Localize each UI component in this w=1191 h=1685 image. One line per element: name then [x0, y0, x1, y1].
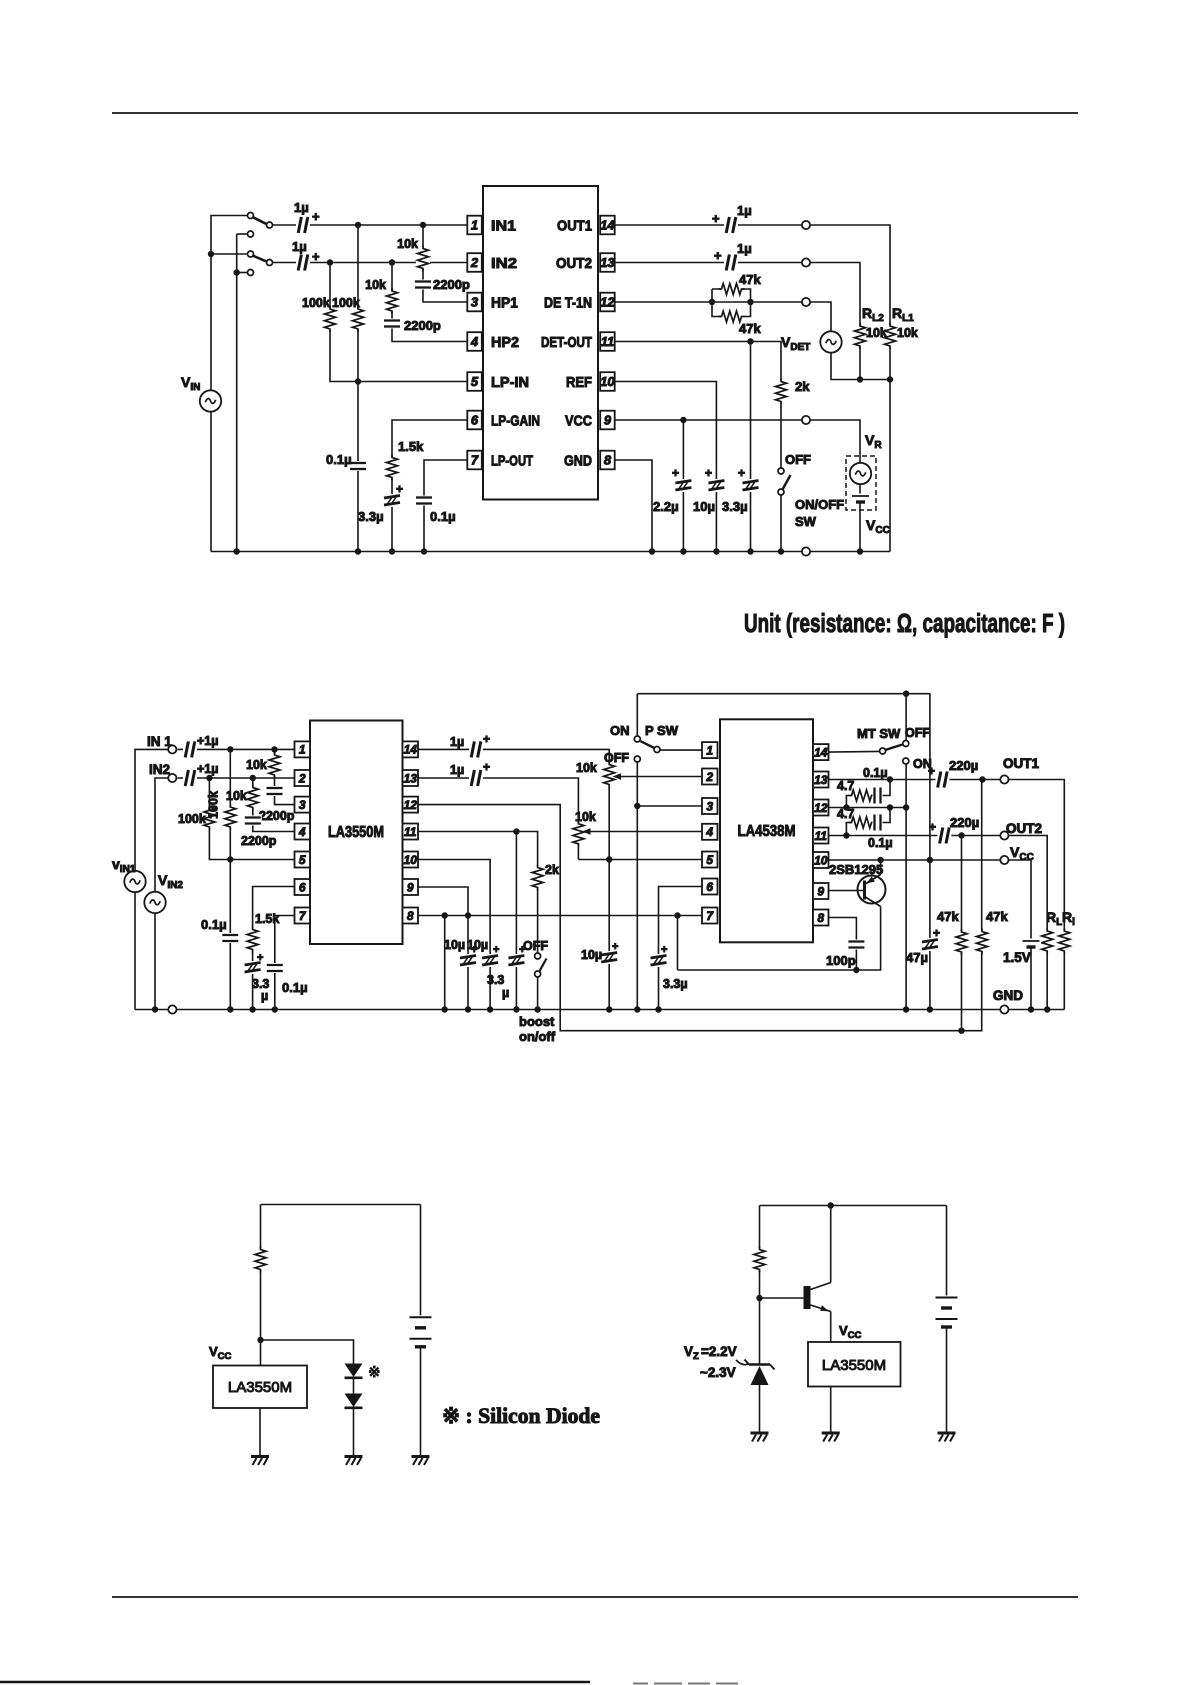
svg-text:9: 9 — [407, 880, 414, 894]
svg-text:+: + — [396, 482, 403, 496]
signal source VIN2 — [144, 892, 165, 913]
wire psw to pin1 — [660, 749, 702, 751]
svg-text:8: 8 — [407, 909, 414, 923]
svg-text:2k: 2k — [795, 379, 810, 394]
capacitor 220u out2 — [937, 827, 951, 845]
svg-text:4.7: 4.7 — [837, 807, 854, 821]
wire collector to pin7wire — [677, 916, 679, 971]
svg-text:3.3µ: 3.3µ — [722, 499, 748, 514]
capacitor 0.1u rc2 — [873, 814, 883, 832]
junction bus offcol — [634, 1006, 640, 1012]
resistor 4.7 a — [849, 789, 875, 803]
junction bus sw — [778, 548, 784, 554]
junction bus 10u — [713, 548, 719, 554]
pin 10 LA4538M — [813, 852, 829, 868]
wire VR internal — [859, 458, 861, 552]
svg-text:1: 1 — [299, 743, 306, 757]
resistor 10k b — [246, 785, 260, 811]
svg-text:VR: VR — [865, 432, 882, 451]
svg-text:LA4538M: LA4538M — [738, 823, 796, 840]
junction bus throw column — [234, 548, 240, 554]
svg-text:2.2µ: 2.2µ — [653, 499, 679, 514]
wire pin8 to pin7 — [418, 915, 702, 917]
pin 8 LA3550M — [403, 908, 419, 924]
transistor Q2 emitter arrow — [820, 1305, 828, 1311]
switch S2 contact — [267, 260, 273, 266]
wire c4 emitter down — [830, 1312, 832, 1343]
pin 11 LA4538M — [813, 828, 829, 844]
svg-text:GND: GND — [993, 988, 1023, 1003]
wire ground bus — [211, 551, 890, 553]
capacitor 1u p14 — [469, 740, 483, 758]
switch S2 unused throw — [248, 270, 254, 276]
wire pin8 down — [444, 916, 446, 1010]
svg-text:100k: 100k — [178, 812, 206, 826]
signal source VDET — [820, 331, 841, 352]
resistor Rl load — [1057, 928, 1071, 954]
junction rc2-pin11 — [843, 832, 849, 838]
svg-text:Unit (resistance: Ω, capacitan: Unit (resistance: Ω, capacitance: F ) — [744, 610, 1065, 638]
wire IN1 to pin1 — [178, 748, 295, 750]
resistor 10k hp2 — [385, 288, 399, 314]
junction bus 3.3u — [747, 548, 753, 554]
pin 4 LA4538M — [702, 824, 718, 840]
wire c4 left column — [759, 1206, 761, 1365]
diode D2 — [345, 1394, 363, 1408]
wire c3 top — [261, 1204, 421, 1206]
pin 3 U1 — [467, 293, 482, 312]
svg-text:VCC: VCC — [839, 1323, 862, 1341]
IC LA4538M body — [720, 719, 813, 942]
svg-text:2200p: 2200p — [433, 277, 470, 292]
junction RL2 bottom — [857, 376, 863, 382]
junction bus 1.5k app — [249, 1006, 255, 1012]
svg-text:100k: 100k — [207, 791, 221, 819]
ground c3 battery — [412, 1457, 430, 1466]
wire c4 collector up — [830, 1206, 832, 1283]
svg-text:5: 5 — [706, 853, 713, 867]
svg-text:0.1µ: 0.1µ — [326, 452, 352, 467]
junction pin5 node — [227, 856, 233, 862]
resistor RL load — [1040, 928, 1054, 954]
junction bus 2.2u — [680, 548, 686, 554]
svg-text:µ: µ — [261, 989, 268, 1003]
resistor RL1 10k — [883, 323, 897, 349]
svg-text:14: 14 — [404, 743, 418, 757]
pin 4 LA3550M — [295, 824, 311, 840]
capacitor 2200p hp1 — [414, 280, 432, 290]
arrow pot2 tap — [582, 828, 591, 834]
terminal IN2 — [168, 774, 176, 782]
svg-text:+: + — [714, 248, 722, 263]
resistor c3 — [254, 1247, 268, 1273]
svg-text:2k: 2k — [545, 863, 559, 877]
transistor Q2 collector — [811, 1283, 831, 1290]
junction LP-IN crossing — [355, 378, 361, 384]
svg-text:2: 2 — [298, 771, 306, 785]
junction 47k left — [709, 299, 715, 305]
junction vcc-2.2u — [680, 417, 686, 423]
switch S1 lever — [253, 217, 267, 224]
switch S2 lever — [253, 256, 267, 262]
svg-text:IN2: IN2 — [149, 762, 170, 777]
pin 12 LA3550M — [403, 797, 419, 813]
junction in2-100k — [206, 775, 212, 781]
svg-text:OFF: OFF — [604, 751, 629, 765]
terminal gnd left — [168, 1005, 176, 1013]
wire 47k loop — [712, 289, 751, 317]
junction mtcol-pin12 — [903, 804, 909, 810]
svg-text:LA3550M: LA3550M — [822, 1357, 886, 1374]
pin 1 LA3550M — [295, 741, 311, 757]
pin 13 LA3550M — [403, 770, 419, 786]
svg-text:14: 14 — [600, 218, 615, 233]
resistor 100k left — [323, 306, 337, 332]
svg-text:+: + — [712, 211, 720, 226]
svg-text:0.1µ: 0.1µ — [430, 509, 456, 524]
pin 11 U1 — [600, 332, 615, 351]
wire IN2 to pin2 — [178, 777, 295, 779]
wire pin14 out — [418, 749, 609, 1009]
pin 9 LA4538M — [813, 883, 829, 899]
svg-text:8: 8 — [604, 453, 612, 468]
svg-text:+: + — [933, 926, 940, 940]
switch ON/OFF top contact — [778, 468, 784, 474]
svg-text:boost: boost — [519, 1014, 555, 1029]
capacitor 0.1u b — [266, 963, 284, 973]
junction rc1-pin12 — [843, 804, 849, 810]
wire c4 top — [760, 1205, 947, 1207]
switch PSW on contact — [634, 736, 640, 742]
pin 7 U1 — [467, 451, 482, 470]
svg-text:1µ: 1µ — [294, 200, 309, 215]
wire pot1 tap — [616, 776, 702, 778]
svg-text:ON/OFF: ON/OFF — [795, 497, 844, 512]
terminal OUT1 app — [1000, 775, 1008, 783]
wire GND branch — [615, 460, 652, 552]
wire in2 rail — [155, 778, 172, 892]
pin 11 LA3550M — [403, 824, 419, 840]
junction pin11-3.3u — [513, 828, 519, 834]
capacitor 1u p13 — [469, 769, 483, 787]
svg-text:+: + — [483, 760, 490, 774]
junction bus 10ub — [487, 1006, 493, 1012]
svg-text:OFF: OFF — [785, 452, 811, 467]
wire LP-GAIN branch — [392, 420, 467, 552]
pin 10 LA3550M — [403, 852, 419, 868]
junction 47k right — [747, 299, 753, 305]
svg-text:VCC: VCC — [866, 517, 890, 536]
svg-text:OFF: OFF — [905, 726, 930, 740]
svg-text:0.1µ: 0.1µ — [282, 980, 308, 995]
svg-text:MT SW: MT SW — [857, 726, 901, 741]
pin 9 LA3550M — [403, 879, 419, 895]
svg-text:1: 1 — [706, 743, 713, 757]
junction bus vin2 — [152, 1006, 158, 1012]
svg-text:47k: 47k — [739, 272, 761, 287]
svg-text:0.1µ: 0.1µ — [863, 766, 888, 780]
svg-text:10k: 10k — [575, 810, 596, 824]
wire VIN rail bottom — [210, 412, 212, 552]
svg-text:1.5k: 1.5k — [255, 912, 279, 926]
svg-text:VCC: VCC — [209, 1344, 232, 1362]
junction out2-47k — [958, 832, 964, 838]
pin 12 U1 — [600, 293, 615, 312]
junction bus 3.3c — [655, 1006, 661, 1012]
svg-text:5: 5 — [299, 853, 306, 867]
svg-text:220µ: 220µ — [950, 815, 979, 830]
ground c4 ic — [822, 1433, 840, 1442]
svg-text:1µ: 1µ — [737, 241, 752, 256]
wire REF branch — [615, 382, 717, 552]
svg-text:+: + — [312, 209, 320, 224]
potentiometer 10k p2 — [571, 821, 585, 847]
transistor Q1 circle — [858, 876, 886, 904]
wire 10k-1 branch — [423, 225, 467, 302]
svg-text:10k: 10k — [246, 758, 267, 772]
svg-text:OFF: OFF — [523, 939, 548, 953]
junction IN1-10k — [420, 222, 426, 228]
junction in1-100k — [227, 746, 233, 752]
svg-text:~2.3V: ~2.3V — [700, 1365, 736, 1380]
svg-text:3: 3 — [299, 798, 306, 812]
wire 100k-b branch — [229, 749, 231, 1009]
wire 100k-2 branch — [357, 225, 359, 552]
capacitor 0.1u c2 — [415, 496, 433, 506]
svg-text:6: 6 — [471, 413, 479, 428]
capacitor 0.1u c1 — [349, 461, 367, 471]
capacitor 1u in2 — [183, 769, 197, 787]
svg-text:10k: 10k — [226, 789, 247, 803]
battery c4 — [935, 1296, 959, 1330]
svg-text:+1µ: +1µ — [197, 734, 218, 748]
wire pin7 branch — [275, 916, 295, 1010]
svg-text:HP1: HP1 — [491, 295, 518, 312]
capacitor 1u out1 — [724, 216, 738, 234]
junction out1-47k — [979, 776, 985, 782]
IC LA3550M c3 body — [213, 1366, 307, 1409]
switch PSW pole — [654, 747, 660, 753]
resistor 47k app2 — [975, 929, 989, 955]
wire c3 ic gnd — [259, 1408, 261, 1457]
junction pin9-pin8wire — [465, 912, 471, 918]
switch S2 pole — [248, 251, 254, 257]
svg-text:10k: 10k — [365, 278, 386, 292]
junction bus RL — [1044, 1006, 1050, 1012]
capacitor 0.1u a — [221, 933, 239, 943]
capacitor 2200p hp2 — [383, 319, 401, 329]
wire sw1 throw stub — [237, 233, 248, 235]
resistor 47k top — [719, 282, 745, 296]
wire rc1 — [846, 780, 890, 808]
svg-text:13: 13 — [600, 255, 615, 270]
switch MT off contact — [903, 741, 909, 747]
junction bus boostsw — [534, 1006, 540, 1012]
svg-text:+: + — [928, 764, 935, 778]
junction pin13-rc — [887, 776, 893, 782]
wire c4 right column — [946, 1206, 948, 1298]
pin 2 LA4538M — [702, 769, 718, 785]
junction 47u-vcc — [927, 857, 933, 863]
svg-text:9: 9 — [604, 413, 612, 428]
transistor Q1 collector — [865, 897, 881, 907]
wire main ground bus — [135, 1009, 1064, 1011]
pin 7 LA3550M — [295, 908, 311, 924]
svg-text:IN2: IN2 — [491, 255, 517, 272]
svg-text:IN1: IN1 — [491, 218, 516, 235]
svg-text:1µ: 1µ — [737, 203, 752, 218]
capacitor 1u out2 — [724, 254, 738, 272]
terminal IN1 — [168, 745, 176, 753]
wire in1 rail — [135, 749, 172, 870]
transistor Q2 emitter — [811, 1305, 831, 1312]
svg-text:+: + — [312, 249, 320, 264]
junction bus gnd — [649, 548, 655, 554]
svg-text:47k: 47k — [986, 909, 1008, 924]
switch boost lever — [539, 959, 547, 973]
svg-text:LP-GAIN: LP-GAIN — [491, 413, 540, 430]
wire 2.2u branch — [682, 420, 684, 552]
wire 10k-2 branch — [392, 263, 467, 342]
svg-text:13: 13 — [814, 773, 828, 787]
capacitor 100p — [847, 940, 865, 950]
svg-text:VZ: VZ — [684, 1344, 699, 1362]
ground c3 ic — [251, 1457, 269, 1466]
svg-text:4.7: 4.7 — [837, 779, 854, 793]
IC LA3550M c4 body — [808, 1342, 901, 1387]
svg-text:11: 11 — [601, 334, 615, 349]
svg-text:OUT1: OUT1 — [1003, 756, 1039, 771]
junction pot1-pin5wire — [606, 856, 612, 862]
svg-text:2200p: 2200p — [259, 809, 295, 823]
svg-text:220µ: 220µ — [949, 758, 978, 773]
svg-text:47k: 47k — [739, 321, 761, 336]
wire pin14 la4538 — [829, 750, 880, 753]
wire IN1 — [273, 224, 467, 226]
switch S1 pole — [248, 213, 254, 219]
svg-text:4: 4 — [470, 334, 479, 349]
svg-text:2SB1295: 2SB1295 — [829, 862, 883, 877]
svg-text:HP2: HP2 — [491, 334, 519, 351]
wire pin12 la4538 — [829, 807, 907, 809]
wire emitter up — [880, 860, 882, 875]
svg-text:+: + — [929, 820, 936, 834]
svg-text:1µ: 1µ — [292, 239, 307, 254]
svg-text:vIN1: vIN1 — [112, 856, 136, 875]
svg-text:RL2: RL2 — [862, 305, 884, 324]
pin 6 LA4538M — [702, 879, 718, 895]
wire IN2 — [273, 262, 467, 264]
wire 47k-1 — [961, 836, 963, 1031]
wire pin6 branch — [253, 887, 295, 1010]
wire VCC — [615, 420, 860, 458]
junction bus 0.1b — [272, 1006, 278, 1012]
svg-text:10: 10 — [814, 853, 828, 867]
pin 6 U1 — [467, 411, 482, 430]
transistor Q1 emitter — [865, 875, 881, 885]
wire 100k-a branch — [209, 778, 230, 860]
potentiometer 10k p1 — [602, 762, 616, 788]
wire pin10 branch — [418, 860, 490, 1010]
wire vin2 bottom — [154, 913, 156, 1009]
wire mt on down — [905, 764, 907, 1009]
capacitor 3.3u c — [650, 954, 668, 967]
wire pot2 tap — [586, 831, 702, 833]
wire mt off up — [905, 694, 907, 740]
junction c4 base node — [756, 1295, 762, 1301]
wire c4 bat to gnd — [946, 1327, 948, 1433]
wire to pin5 — [230, 859, 294, 861]
wire 100k-1 branch — [330, 263, 467, 382]
svg-text:10k: 10k — [397, 237, 418, 251]
junction bus pin8 — [442, 1006, 448, 1012]
svg-text:3: 3 — [471, 295, 479, 310]
junction off-pin3 — [634, 803, 640, 809]
junction bus 10ua — [465, 1006, 471, 1012]
pin 14 U1 — [600, 216, 615, 235]
ground c4 zener — [751, 1433, 769, 1442]
pin 1 U1 — [467, 216, 482, 235]
svg-text:1: 1 — [471, 218, 478, 233]
switch boost pole — [535, 971, 541, 977]
resistor 4.7 b — [849, 816, 875, 830]
svg-text:13: 13 — [404, 771, 418, 785]
terminal OUT1 — [802, 221, 810, 229]
capacitor 3.3u c2 — [742, 479, 760, 492]
wire pin11 out — [418, 832, 538, 953]
svg-text:OUT2: OUT2 — [1006, 821, 1042, 836]
pin 7 LA4538M — [702, 908, 718, 924]
terminal bus — [802, 547, 810, 555]
svg-text:+: + — [672, 466, 679, 480]
svg-text:10µ: 10µ — [693, 499, 715, 514]
pin 9 U1 — [600, 411, 615, 430]
svg-text:10k: 10k — [576, 761, 597, 775]
junction bus pot1 — [606, 1006, 612, 1012]
svg-text:11: 11 — [815, 829, 828, 843]
svg-text:LA3550M: LA3550M — [228, 1379, 292, 1396]
svg-text:µ: µ — [502, 986, 509, 1000]
svg-text:※ : Silicon Diode: ※ : Silicon Diode — [442, 1403, 600, 1428]
signal source VIN — [200, 390, 221, 411]
wire 3.3u b branch — [515, 832, 517, 1010]
svg-text:※: ※ — [368, 1364, 381, 1381]
wire VIN rail top — [211, 216, 251, 391]
junction rc2-pin12 — [887, 804, 893, 810]
transistor Q1 base bar — [863, 881, 866, 900]
wire OUT1 — [615, 225, 890, 552]
capacitor 2200p b — [244, 816, 262, 826]
svg-text:0.1µ: 0.1µ — [201, 917, 227, 932]
junction rail-sw2 — [208, 251, 214, 257]
VR dashed box — [846, 456, 876, 510]
wire DET-OUT — [615, 342, 781, 468]
wire top rail — [637, 694, 930, 1010]
junction bus 3.3b — [513, 1006, 519, 1012]
junction bus 0.1u — [421, 548, 427, 554]
wire VDET to loads — [831, 353, 890, 380]
capacitor 220u out1 — [935, 771, 949, 789]
svg-text:2: 2 — [705, 770, 713, 784]
capacitor 1u IN2 — [296, 254, 310, 272]
junction rail mt — [903, 691, 909, 697]
switch PSW lever — [641, 741, 655, 748]
svg-text:47µ: 47µ — [906, 950, 928, 965]
junction IN2-10k — [389, 259, 395, 265]
terminal VCC app — [1000, 856, 1008, 864]
capacitor 0.1u rc1 — [873, 787, 883, 805]
svg-text:1.5k: 1.5k — [398, 439, 424, 454]
